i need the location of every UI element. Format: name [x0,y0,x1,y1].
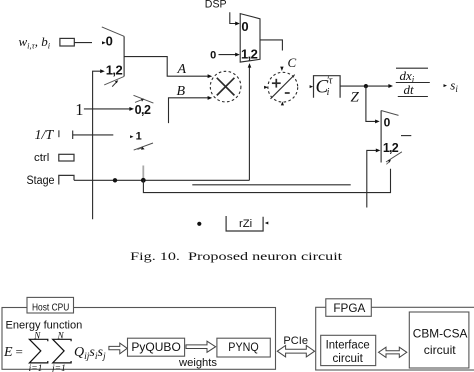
arrow into adder left [264,86,268,89]
switch S3 blade [134,143,153,150]
hollow arrow PCIe (double) [277,346,314,357]
svg-text:0: 0 [210,49,216,61]
tick 1 [58,130,60,137]
register C_i (open bottom) [314,76,341,98]
arrow into register C_i [310,85,314,88]
adder U1 [268,72,298,102]
wire W1 to mux M1 [74,42,92,44]
wire DSP mux output to adder [260,40,282,51]
switch S2 blade [134,95,154,103]
sigma 2 [53,339,71,363]
svg-text:A: A [177,62,187,77]
svg-text:Interface: Interface [326,339,370,351]
hollow arrow 1 [109,343,127,354]
svg-text:Qijsisj: Qijsisj [74,345,106,362]
svg-text:i=1: i=1 [29,364,43,372]
wire 1 into switch S2 [84,108,131,110]
svg-text:circuit: circuit [333,353,364,365]
svg-text:Host CPU: Host CPU [32,301,69,313]
wire Z to mux M3 input 0 [366,86,377,121]
switch S3 blade arrow [138,148,142,150]
sigma 1 [29,339,47,363]
wire DSP mux select [248,66,250,180]
svg-text:PCIe: PCIe [283,335,308,347]
mux M3 bottom blade [386,152,402,162]
wire into DSP mux input 0 [230,12,237,23]
svg-text:PYNQ: PYNQ [228,340,258,354]
wire lower bus [143,169,390,193]
node Z dot [364,84,368,88]
register rZi (open top) [226,216,263,231]
svg-text:B: B [177,84,186,99]
wire A from mux M1 to multiplier [124,57,209,77]
arrow into adder bottom [281,102,284,106]
svg-text:dt: dt [404,82,415,97]
svg-text:i: i [327,87,330,98]
svg-text:0: 0 [384,115,391,129]
mux M3 top blade [381,111,398,116]
Host CPU label box [27,297,74,313]
multiplier X1 [210,71,241,102]
svg-text:Stage: Stage [27,175,55,187]
wire register C_i to dx/dt [340,85,390,87]
svg-text:0: 0 [241,19,248,34]
svg-text:N: N [33,330,41,340]
svg-text:Energy function: Energy function [6,320,83,332]
switch S2 blade arrow [135,100,142,103]
svg-text:FPGA: FPGA [333,301,365,315]
Host CPU outer box [2,308,276,370]
svg-text:DSP: DSP [205,0,227,11]
faint stub above stage bus junction [142,166,144,180]
junction dot [141,178,146,183]
mux M1 bottom blade [104,76,124,85]
wire 0 into DSP mux [219,54,237,56]
svg-text:weights: weights [178,357,218,369]
PyQUBO box [128,338,185,356]
svg-text:1,2: 1,2 [241,46,258,61]
CBM-CSA circuit box [409,312,469,368]
svg-text:1,2: 1,2 [383,141,399,155]
svg-text:E: E [3,345,13,360]
dash mark [401,135,411,137]
arrow into adder top [280,67,283,71]
svg-text:1,2: 1,2 [106,62,123,77]
svg-text:j=1: j=1 [50,364,66,372]
hollow arrow interface-CBM (double) [379,347,407,357]
svg-text:0: 0 [106,34,113,49]
PYNQ box [217,338,270,357]
arrow into switch S3 [130,135,133,138]
svg-text:1: 1 [136,131,142,143]
junction dot [113,178,117,182]
mux M1 top blade [102,27,124,36]
fraction bar [396,82,430,84]
FPGA label box [326,299,372,317]
svg-text:circuit: circuit [424,343,457,357]
mux M1 bus [123,36,125,76]
svg-text:ctrl: ctrl [34,152,49,164]
svg-text:1: 1 [75,100,83,119]
mux M3 select arrow [386,162,389,165]
svg-text:C: C [288,55,297,70]
wire B from switch S2 bus to multiplier [169,98,209,123]
svg-text:si: si [450,77,458,94]
arrow into mux M1 input 0 [102,41,106,44]
svg-text:wi,τ, bi: wi,τ, bi [19,34,51,51]
svg-text:=: = [16,344,23,359]
block dx/dt underline [398,96,428,98]
svg-text:1/T: 1/T [35,128,55,143]
DSP mux M2 body [240,14,260,63]
Interface circuit box [321,335,376,365]
svg-text:PyQUBO: PyQUBO [131,340,180,354]
wire middle floating bus [192,184,350,186]
tick 2 with wire [72,131,74,140]
FPGA outer box [316,307,474,370]
svg-text:CBM-CSA: CBM-CSA [413,326,468,340]
stage bus [74,179,249,181]
wire feedback to mux M3 input 1,2 [367,150,378,207]
register W1 [60,38,74,46]
svg-text:rZi: rZi [239,218,252,230]
mux M1 select arrow [112,82,116,86]
dot [197,222,201,226]
svg-text:′τ: ′τ [327,76,333,87]
register Stage (open bottom) [59,175,74,184]
svg-text:0,2: 0,2 [135,103,151,117]
arrow into rZi [265,222,269,225]
block dx/dt overline [396,67,428,69]
svg-text:Fig. 10. Proposed neuron circ: Fig. 10. Proposed neuron circuit [130,249,343,263]
hollow arrow 2 [186,341,216,352]
wire feedback into mux M1 input 1,2 [93,71,102,219]
arrow to s_i [444,84,448,87]
svg-text:N: N [57,330,65,340]
svg-text:Z: Z [351,90,360,106]
mux M3 bus [380,111,382,163]
register ctrl [59,154,74,161]
